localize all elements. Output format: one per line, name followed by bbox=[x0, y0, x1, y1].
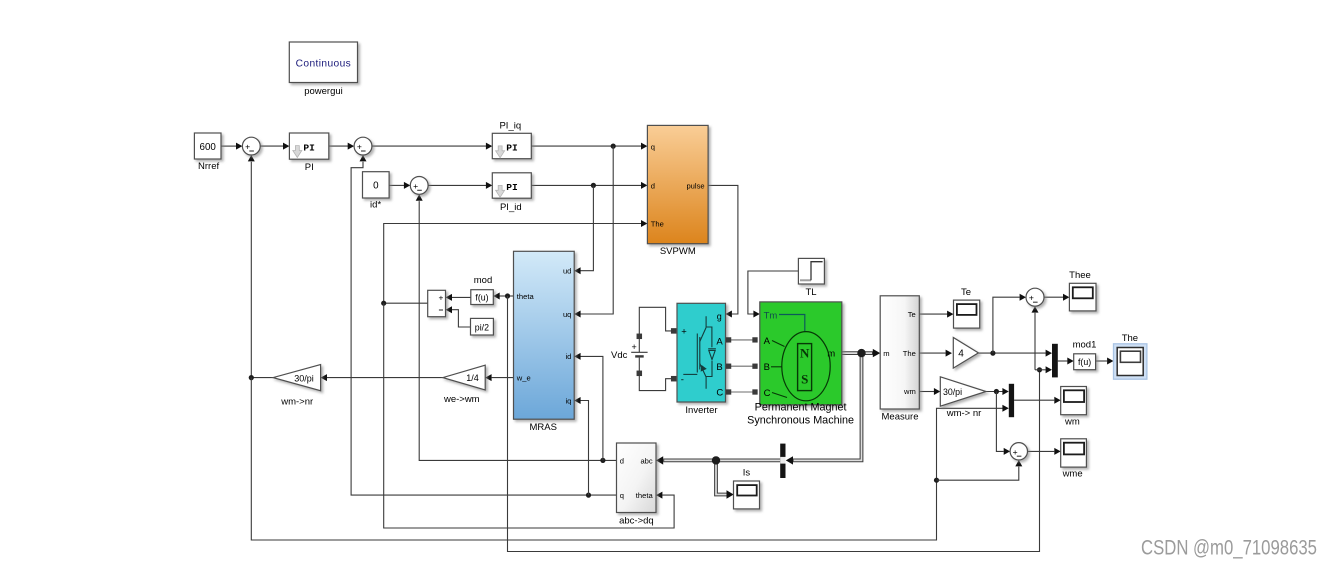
wire gain4 to mux1 bbox=[978, 350, 1052, 357]
wire theta junction to mux1 in2 bbox=[1035, 366, 1052, 373]
constant pi/2 bbox=[471, 318, 494, 335]
svg-text:Inverter: Inverter bbox=[685, 405, 717, 416]
wire junction to MRAS ud bbox=[574, 185, 593, 274]
wire nr estimate to wme sum bbox=[937, 460, 1023, 480]
wire abc junction to Is scope (thick) bbox=[716, 460, 734, 498]
wire theta junction up to Thee sum bottom bbox=[1032, 306, 1039, 370]
sum Thee bbox=[1026, 288, 1044, 306]
node theta-pi/2 junction bbox=[381, 301, 386, 306]
wire pi/2 to sumrect minus bbox=[446, 306, 471, 327]
svg-text:CSDN @m0_71098635: CSDN @m0_71098635 bbox=[1141, 537, 1317, 560]
svg-text:PI_id: PI_id bbox=[500, 202, 522, 213]
wire nr actual down to wme sum bbox=[996, 392, 1010, 455]
subsystem MRAS bbox=[514, 251, 575, 433]
wire demux to abc-dq abc (thick) bbox=[656, 456, 780, 464]
svg-text:Te: Te bbox=[961, 287, 971, 298]
node abc junction bbox=[712, 456, 720, 464]
mux Mux2 bbox=[1009, 384, 1014, 417]
node nr estimate right junction bbox=[934, 478, 939, 483]
function mod f(u) bbox=[471, 275, 494, 304]
wire PI_iq to SVPWM q bbox=[531, 143, 647, 150]
wire SVPWM pulse to inverter g bbox=[708, 185, 738, 317]
scope Thee bbox=[1069, 270, 1096, 311]
svg-text:ud: ud bbox=[563, 267, 571, 276]
function mod1 f(u) bbox=[1073, 339, 1097, 369]
BLOCKS bbox=[194, 42, 1147, 527]
svg-text:0: 0 bbox=[373, 181, 379, 192]
scope Te bbox=[954, 287, 980, 328]
wire abc-dq q output feedback to sum2 bbox=[351, 155, 616, 495]
svg-text:f(u): f(u) bbox=[475, 293, 488, 303]
mux Mux1 bbox=[1052, 344, 1058, 378]
scope The (selected) bbox=[1114, 333, 1147, 379]
svg-text:N: N bbox=[800, 345, 810, 360]
svg-text:C: C bbox=[764, 388, 771, 399]
wire wme sum to wme scope bbox=[1028, 448, 1061, 455]
wire sumrect output to SVPWM The bbox=[384, 220, 648, 303]
svg-text:iq: iq bbox=[565, 396, 571, 405]
svg-text:S: S bbox=[801, 371, 808, 386]
PI block PI_iq bbox=[492, 121, 531, 159]
svg-text:Continuous: Continuous bbox=[296, 58, 352, 69]
wire mod1 to The scope bbox=[1096, 358, 1114, 365]
svg-text:Te: Te bbox=[908, 310, 916, 319]
constant Nrref bbox=[194, 133, 221, 172]
svg-text:Tm: Tm bbox=[764, 310, 778, 321]
svg-text:1/4: 1/4 bbox=[466, 373, 479, 383]
svg-text:q: q bbox=[651, 142, 655, 151]
scope wm bbox=[1061, 387, 1087, 428]
wire nr estimate long feedback to mux2 bbox=[251, 378, 1009, 540]
svg-text:w_e: w_e bbox=[516, 373, 531, 382]
svg-text:mod: mod bbox=[474, 275, 492, 286]
wire sum2 to PI_iq bbox=[372, 143, 492, 150]
scope wme bbox=[1061, 439, 1087, 480]
wire sum3 to PI_id bbox=[428, 182, 492, 189]
svg-text:+: + bbox=[357, 142, 362, 152]
svg-text:A: A bbox=[716, 336, 723, 347]
svg-text:30/pi: 30/pi bbox=[294, 373, 314, 383]
wire inverter B to PMSM B bbox=[731, 365, 753, 367]
PI block PI bbox=[289, 133, 328, 173]
node q output junction bbox=[586, 493, 591, 498]
gain 30/pi right (wm to nr) bbox=[940, 377, 986, 419]
wire mux2 to wm scope bbox=[1014, 397, 1061, 404]
svg-text:The: The bbox=[651, 220, 664, 229]
sum S3 bbox=[410, 177, 428, 195]
wire Measure The to gain4 bbox=[919, 350, 952, 357]
PMSM port squares bbox=[753, 338, 757, 394]
wire q junction to MRAS iq bbox=[574, 397, 588, 495]
subsystem SVPWM bbox=[647, 125, 708, 257]
scope Is bbox=[734, 468, 760, 509]
node PI_iq output junction bbox=[611, 144, 616, 149]
svg-text:+: + bbox=[1029, 293, 1034, 303]
wire Vdc plus to inverter bbox=[639, 307, 671, 335]
svg-text:Permanent Magnet: Permanent Magnet bbox=[755, 402, 847, 414]
svg-text:wm: wm bbox=[1064, 417, 1080, 428]
wire f(u) to sumrect plus bbox=[446, 294, 471, 301]
svg-text:wm-> nr: wm-> nr bbox=[946, 408, 982, 419]
wire junction to MRAS uq bbox=[574, 146, 613, 317]
subsystem Inverter bbox=[677, 303, 726, 416]
svg-text:id*: id* bbox=[370, 200, 381, 211]
inverter port squares bbox=[672, 329, 731, 394]
svg-text:wm->nr: wm->nr bbox=[280, 397, 313, 408]
svg-text:600: 600 bbox=[200, 142, 217, 153]
wire d junction to MRAS id bbox=[574, 353, 603, 461]
svg-text:abc: abc bbox=[640, 456, 652, 465]
svg-text:f(u): f(u) bbox=[1078, 357, 1091, 367]
svg-text:Thee: Thee bbox=[1069, 270, 1091, 281]
svg-text:abc->dq: abc->dq bbox=[619, 516, 654, 527]
svg-text:g: g bbox=[717, 311, 722, 321]
gain 1/4 (we to wm) bbox=[443, 365, 485, 405]
wire Thee sum to Thee scope bbox=[1044, 294, 1069, 301]
step TL bbox=[798, 258, 824, 298]
sum S2 bbox=[354, 137, 372, 155]
svg-text:powergui: powergui bbox=[304, 86, 343, 97]
wire PI_id to SVPWM d bbox=[531, 182, 647, 189]
svg-text:pulse: pulse bbox=[686, 182, 704, 191]
svg-text:B: B bbox=[764, 362, 770, 373]
svg-text:we->wm: we->wm bbox=[443, 394, 480, 405]
svg-text:d: d bbox=[620, 456, 624, 465]
wire abc-dq d output feedback to sum3 bbox=[416, 194, 617, 460]
svg-text:theta: theta bbox=[636, 491, 654, 500]
svg-text:-: - bbox=[681, 374, 684, 385]
wire Measure wm to gain 30/pi right bbox=[919, 388, 940, 395]
svg-text:m: m bbox=[883, 349, 889, 358]
wire PI to sum2 bbox=[329, 143, 354, 150]
wire MRAS theta to f(u) mod bbox=[493, 293, 513, 300]
svg-text:+: + bbox=[413, 181, 418, 191]
svg-text:pi/2: pi/2 bbox=[475, 322, 489, 332]
svg-text:Measure: Measure bbox=[882, 412, 919, 423]
svg-text:C: C bbox=[716, 388, 723, 399]
wire Measure Te to Te scope bbox=[919, 311, 953, 318]
wire gain 1/4 to gain 30/pi bbox=[321, 374, 443, 381]
wire inverter A to PMSM A bbox=[731, 339, 753, 341]
svg-text:+: + bbox=[1013, 447, 1018, 457]
constant id* bbox=[363, 172, 390, 211]
svg-text:wme: wme bbox=[1062, 469, 1083, 480]
wire Vdc minus to inverter bbox=[639, 375, 671, 391]
wire The4 up to Thee sum bbox=[993, 294, 1026, 353]
DC source Vdc bbox=[611, 334, 648, 375]
svg-text:PI: PI bbox=[506, 182, 518, 193]
node nr actual junction bbox=[994, 389, 999, 394]
wire PMSM m to Measure (thick) bbox=[842, 349, 880, 357]
powergui block bbox=[289, 42, 357, 97]
wire theta-pi/2 down to abc-dq theta bbox=[384, 303, 674, 528]
svg-text:PI: PI bbox=[506, 142, 518, 153]
svg-text:A: A bbox=[764, 336, 771, 347]
svg-text:+: + bbox=[245, 142, 250, 152]
svg-text:30/pi: 30/pi bbox=[943, 387, 962, 397]
wire Nrref to sum1 bbox=[221, 143, 242, 150]
demux on stator current line bbox=[780, 444, 785, 478]
node d output junction bbox=[600, 458, 605, 463]
wire theta long feedback to mux1 bbox=[508, 296, 1040, 552]
svg-text:MRAS: MRAS bbox=[529, 422, 556, 433]
svg-text:wm: wm bbox=[903, 387, 916, 396]
sum rectangle theta-pi/2 bbox=[428, 290, 446, 316]
subsystem Measure bbox=[880, 296, 919, 423]
svg-text:Is: Is bbox=[743, 468, 751, 479]
svg-text:Nrref: Nrref bbox=[198, 161, 219, 172]
wire m down to demux (thick) bbox=[786, 353, 862, 465]
svg-text:mod1: mod1 bbox=[1073, 339, 1097, 350]
wire gain 30/pi up to sum1 bbox=[248, 155, 273, 378]
svg-text:+: + bbox=[632, 342, 637, 352]
svg-text:B: B bbox=[716, 362, 722, 373]
svg-text:q: q bbox=[620, 491, 624, 500]
sum S1 bbox=[242, 137, 260, 155]
svg-text:+: + bbox=[681, 326, 687, 337]
svg-text:PI_iq: PI_iq bbox=[499, 121, 521, 132]
svg-text:The: The bbox=[903, 349, 916, 358]
svg-text:PI: PI bbox=[305, 162, 314, 173]
transform abc to dq bbox=[617, 443, 657, 527]
wire gain 30/pi right to mux2 bbox=[986, 388, 1009, 395]
PI block PI_id bbox=[492, 173, 531, 213]
svg-text:Synchronous Machine: Synchronous Machine bbox=[747, 415, 854, 427]
svg-text:d: d bbox=[651, 182, 655, 191]
svg-text:uq: uq bbox=[563, 310, 571, 319]
sum wme bbox=[1010, 443, 1027, 460]
node theta junction bbox=[505, 293, 510, 298]
svg-text:4: 4 bbox=[958, 348, 964, 359]
wire inverter C to PMSM C bbox=[731, 391, 753, 393]
gain 4 bbox=[953, 338, 978, 369]
node The4 junction bbox=[990, 351, 995, 356]
svg-text:The: The bbox=[1122, 333, 1138, 344]
svg-text:id: id bbox=[565, 352, 571, 361]
node theta feedback top junction bbox=[1037, 367, 1042, 372]
svg-text:theta: theta bbox=[517, 292, 535, 301]
node PI_id output junction bbox=[591, 183, 596, 188]
wire id* to sum3 bbox=[389, 182, 410, 189]
svg-text:Vdc: Vdc bbox=[611, 350, 628, 361]
wire mux1 to f(u) mod1 bbox=[1058, 358, 1074, 365]
svg-text:+: + bbox=[438, 292, 443, 302]
gain 30/pi left (wm to nr) bbox=[273, 365, 321, 408]
machine PMSM bbox=[747, 302, 854, 427]
wire TL to PMSM Tm bbox=[748, 271, 799, 318]
wire MRAS w_e to gain 1/4 bbox=[485, 374, 513, 381]
node m junction bbox=[857, 349, 865, 357]
wire sum1 to PI bbox=[260, 143, 289, 150]
svg-text:SVPWM: SVPWM bbox=[660, 246, 696, 257]
node nr estimate junction bbox=[249, 375, 254, 380]
svg-text:PI: PI bbox=[303, 142, 315, 153]
svg-text:TL: TL bbox=[805, 287, 816, 298]
